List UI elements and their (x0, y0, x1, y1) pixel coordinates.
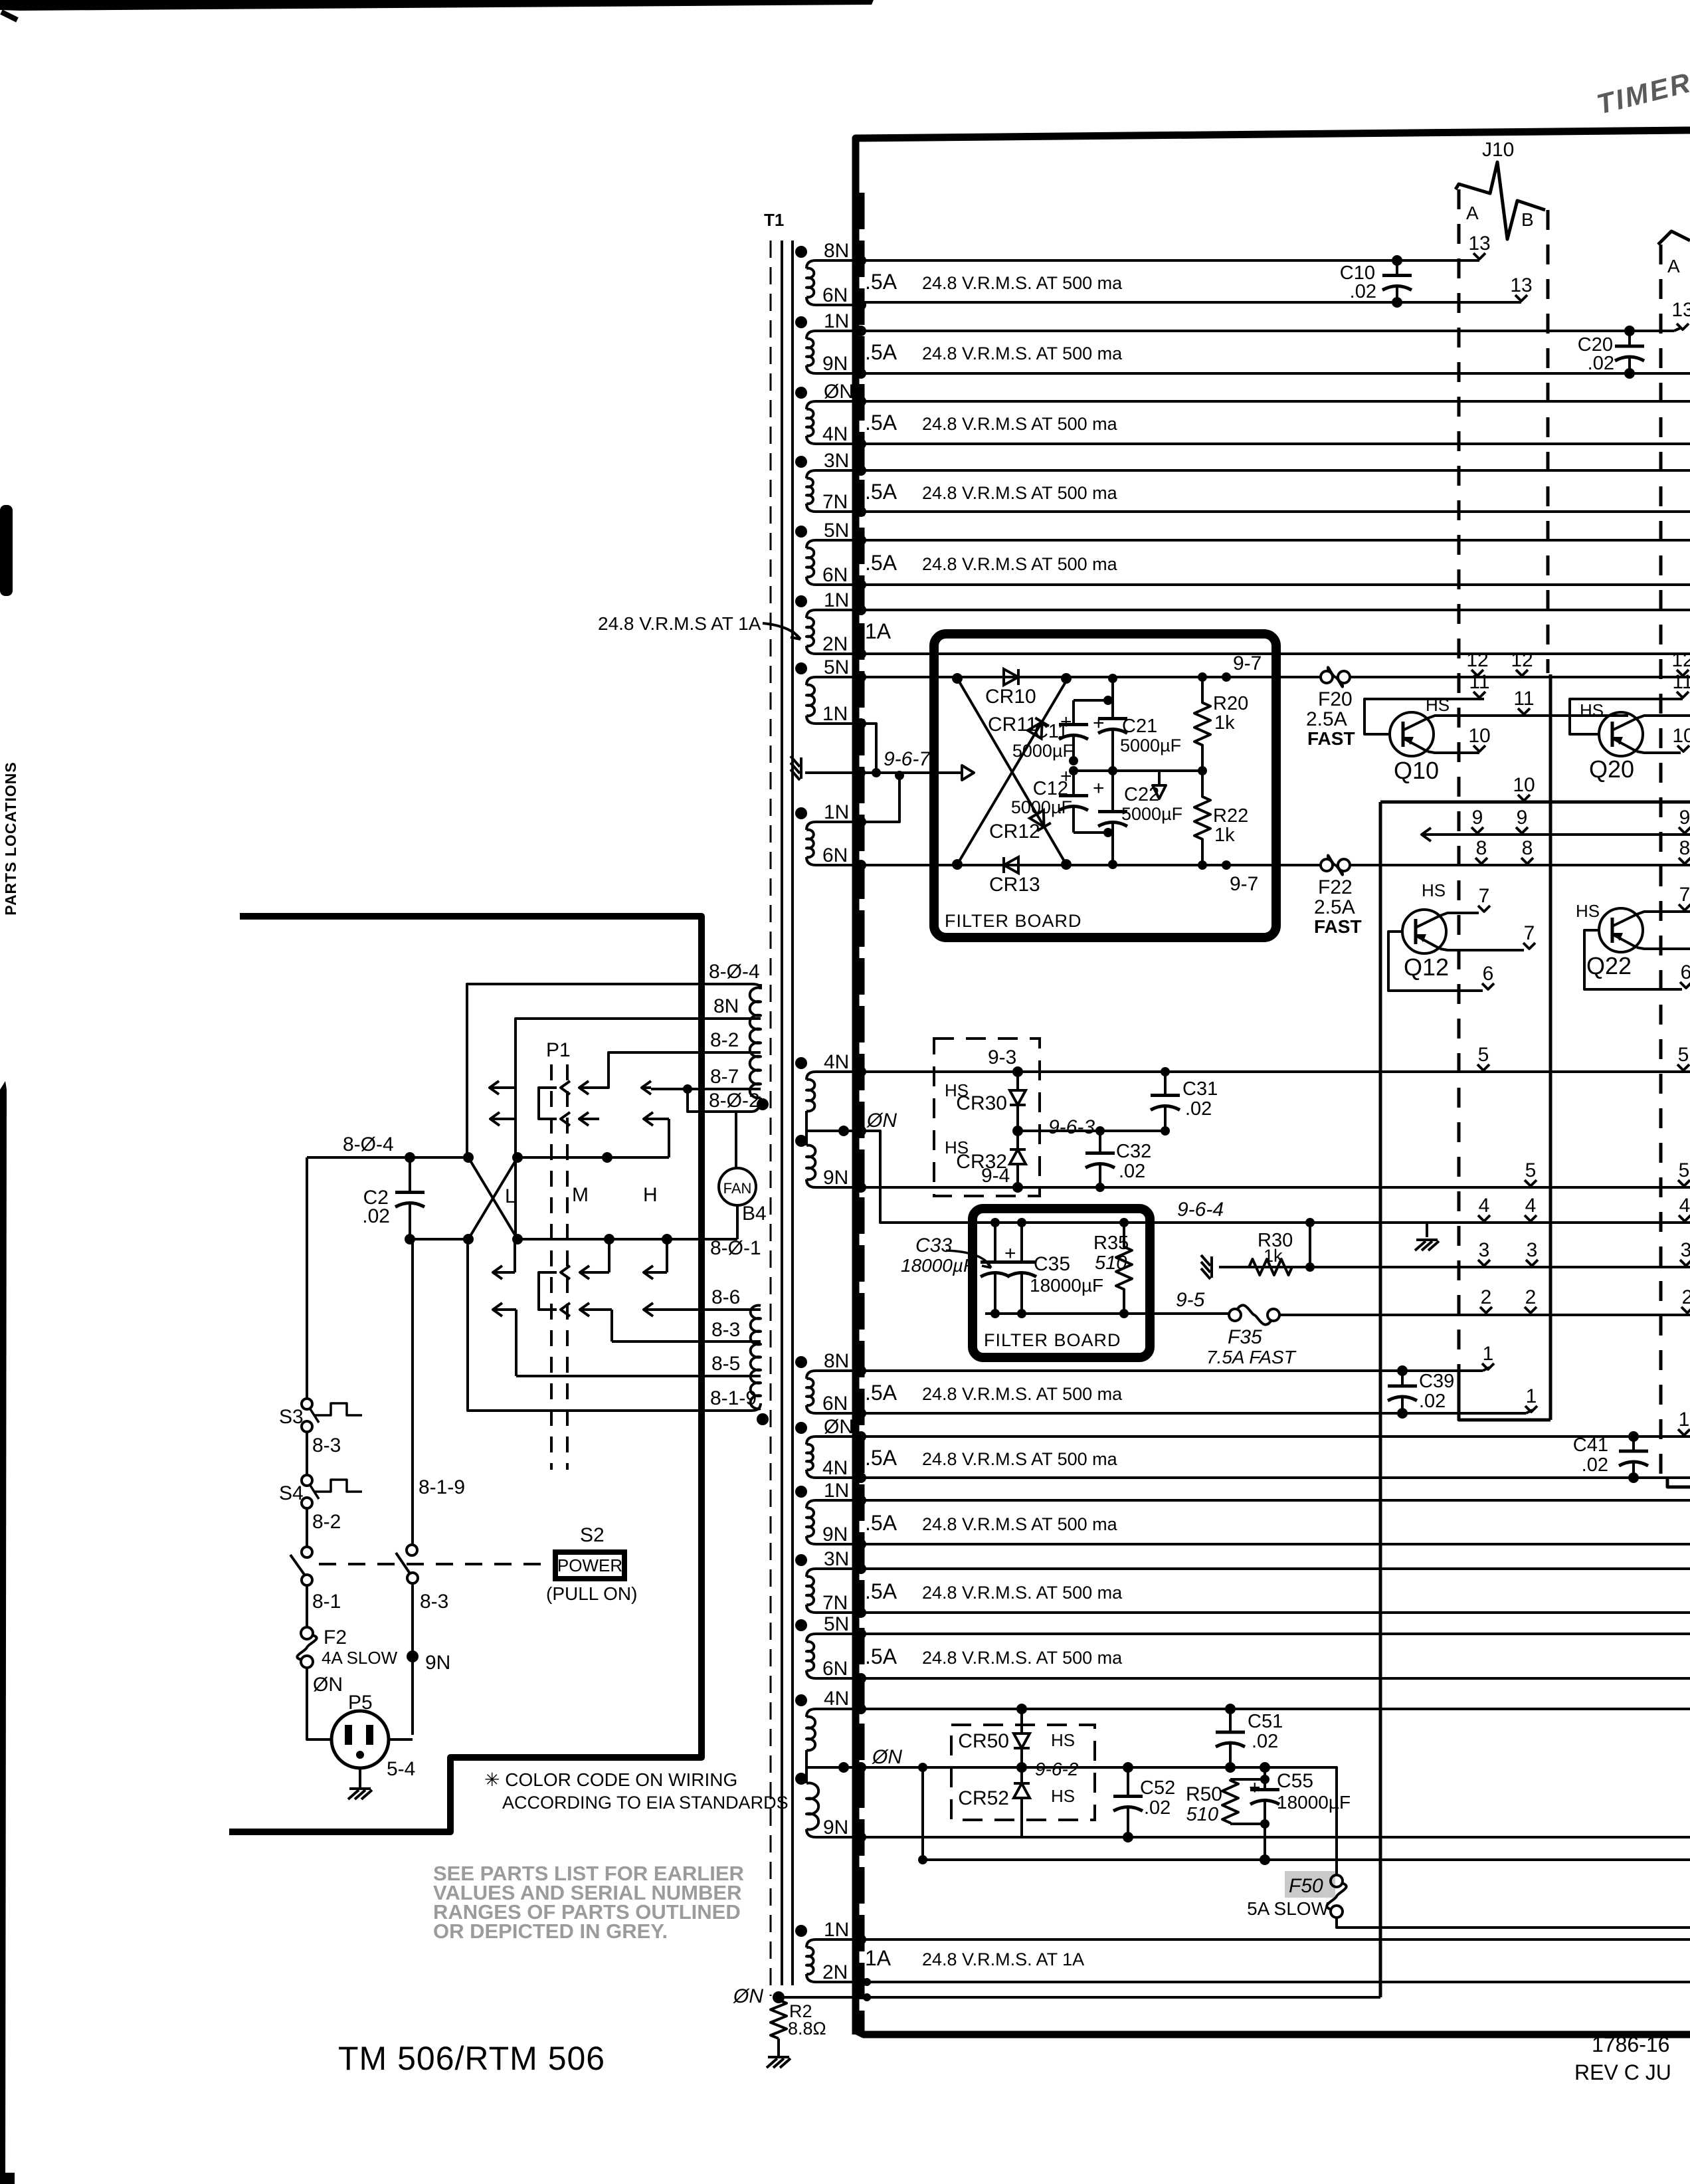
svg-text:FAST: FAST (1314, 916, 1362, 937)
svg-text:510: 510 (1186, 1804, 1218, 1825)
pin 4 arrow (1478, 1195, 1490, 1221)
svg-text:Q20: Q20 (1589, 755, 1634, 783)
svg-text:9: 9 (1472, 807, 1483, 829)
svg-text:5: 5 (1525, 1159, 1537, 1181)
svg-text:.02: .02 (1252, 1731, 1278, 1752)
svg-text:.02: .02 (1350, 281, 1376, 302)
pin 4 arrow right edge (1679, 1195, 1690, 1221)
svg-text:+: + (1060, 711, 1072, 733)
capacitor C31 .02 (1164, 1072, 1167, 1096)
right connector pin 13 (1671, 299, 1690, 330)
svg-text:C52: C52 (1140, 1777, 1175, 1799)
svg-text:CR50: CR50 (958, 1730, 1009, 1752)
transformer winding 1N/9N (806, 331, 861, 339)
svg-text:8-Ø-4: 8-Ø-4 (343, 1134, 394, 1155)
capacitor C32 .02 (1099, 1131, 1101, 1153)
svg-text:7N: 7N (822, 1592, 848, 1614)
svg-text:2: 2 (1481, 1286, 1492, 1308)
pin 8 arrow (1521, 837, 1533, 864)
svg-text:3: 3 (1681, 1239, 1690, 1261)
svg-text:18000µF: 18000µF (1277, 1792, 1351, 1813)
svg-text:+: + (1004, 1242, 1016, 1264)
svg-text:18000µF: 18000µF (901, 1255, 976, 1276)
filter board 1 outline (934, 634, 1276, 938)
label 9-7 bottom (1222, 860, 1231, 870)
svg-text:.5A: .5A (865, 340, 897, 364)
svg-text:9-5: 9-5 (1176, 1289, 1205, 1311)
wire row 6N (861, 301, 1521, 304)
svg-text:.02: .02 (362, 1205, 390, 1227)
svg-text:5000µF: 5000µF (1120, 736, 1181, 755)
svg-text:24.8 V.R.M.S AT 500 ma: 24.8 V.R.M.S AT 500 ma (922, 1449, 1118, 1469)
svg-text:.02: .02 (1144, 1797, 1171, 1819)
svg-text:5: 5 (1678, 1044, 1689, 1066)
svg-text:.5A: .5A (865, 1381, 897, 1405)
svg-text:4N: 4N (824, 1051, 849, 1073)
svg-text:.02: .02 (1582, 1454, 1608, 1476)
svg-text:2: 2 (1682, 1286, 1690, 1308)
svg-text:1k: 1k (1214, 825, 1235, 846)
transformer winding 1N/2N (806, 610, 861, 618)
capacitor C33 18000uF with pointer (994, 1223, 996, 1262)
svg-text:8-3: 8-3 (420, 1591, 448, 1613)
svg-text:FILTER BOARD: FILTER BOARD (984, 1330, 1121, 1350)
svg-text:5N: 5N (824, 520, 849, 542)
fuse F35 7.5A FAST (1229, 1309, 1241, 1321)
svg-text:8-2: 8-2 (312, 1511, 341, 1533)
connector P1 lower pin pair (561, 1266, 570, 1316)
svg-text:4: 4 (1679, 1195, 1690, 1217)
svg-text:PARTS LOCATIONS: PARTS LOCATIONS (2, 761, 19, 915)
svg-text:13: 13 (1468, 233, 1490, 254)
svg-text:9-4: 9-4 (981, 1165, 1010, 1187)
primary winding upper (taps 8-0-4,8N,8-2,8-7) (750, 988, 761, 1098)
transformer T1 core solid lines (781, 241, 783, 1985)
wire row aux 0N bottom (921, 1767, 924, 1860)
svg-text:R20: R20 (1213, 693, 1248, 714)
transformer winding ØN/4N (806, 1437, 861, 1444)
pin 9 arrow (1471, 807, 1483, 833)
svg-text:9N: 9N (823, 1167, 848, 1189)
svg-text:C39: C39 (1419, 1371, 1454, 1392)
wire row 6N lower2 (861, 1677, 1690, 1680)
pin 8 arrow right edge (1679, 837, 1690, 864)
wire 8-1-9 to S2 right pole (411, 1239, 414, 1545)
svg-text:R35: R35 (1093, 1233, 1129, 1254)
svg-text:C32: C32 (1116, 1141, 1151, 1162)
svg-text:8N: 8N (824, 1350, 849, 1372)
transformer T1 core dashed line (770, 241, 772, 1996)
svg-text:HS: HS (945, 1080, 969, 1100)
wire 8-0-4 (467, 984, 761, 1157)
wire 8-7 (651, 1088, 761, 1090)
svg-text:9: 9 (1679, 807, 1690, 829)
pin 10 arrow (1468, 725, 1490, 751)
mid rail connector arrow (1153, 771, 1166, 799)
wire row 0N chassis (779, 1996, 1380, 1999)
capacitor C22 (1111, 771, 1114, 812)
svg-text:ØN: ØN (866, 1110, 897, 1132)
P5 ground (359, 1768, 361, 1789)
svg-text:HS: HS (945, 1138, 969, 1157)
switch S2 left pole (302, 1547, 312, 1557)
svg-text:9-6-4: 9-6-4 (1177, 1199, 1224, 1221)
diode CR32 (1016, 1131, 1019, 1149)
svg-text:4A SLOW: 4A SLOW (322, 1648, 398, 1668)
wire row 4N (861, 443, 1690, 445)
pin 3 arrow (1478, 1239, 1490, 1266)
svg-text:7: 7 (1679, 884, 1690, 906)
svg-text:10: 10 (1468, 725, 1490, 747)
svg-text:5000µF: 5000µF (1011, 797, 1072, 817)
svg-text:Q22: Q22 (1586, 952, 1632, 979)
pin 3 arrow right edge (1680, 1239, 1690, 1266)
capacitor C12 (1072, 771, 1075, 796)
svg-text:1k: 1k (1214, 712, 1235, 734)
wire row 9N lower (861, 1543, 1690, 1545)
svg-text:1N: 1N (824, 1480, 849, 1502)
pin 7 arrow right edge (1679, 884, 1690, 910)
svg-text:6N: 6N (822, 564, 848, 586)
svg-text:+: + (1093, 712, 1105, 734)
capacitor C10 .02 (1396, 260, 1398, 276)
svg-text:8-2: 8-2 (710, 1029, 739, 1051)
svg-text:R50: R50 (1186, 1783, 1222, 1805)
resistor R22 1k (1194, 771, 1210, 865)
svg-text:5000µF: 5000µF (1012, 741, 1074, 761)
svg-text:.5A: .5A (865, 1446, 897, 1470)
svg-text:24.8 V.R.M.S AT 1A: 24.8 V.R.M.S AT 1A (598, 613, 761, 634)
resistor R35 510 (1116, 1223, 1132, 1314)
svg-text:24.8 V.R.M.S. AT 500 ma: 24.8 V.R.M.S. AT 500 ma (922, 1583, 1123, 1603)
fuse F50 5A SLOW with grey highlight (1285, 1871, 1335, 1898)
wire 0N to filter board 2 (pin 4 rail 9-6-4) (861, 1131, 1690, 1223)
transformer winding 8N/6N (806, 1371, 861, 1379)
svg-text:.5A: .5A (865, 1511, 897, 1535)
wire row 4N lower (861, 1476, 1690, 1479)
svg-text:REV C JU: REV C JU (1574, 2060, 1671, 2084)
svg-text:ØN: ØN (824, 1416, 854, 1438)
svg-text:7.5A FAST: 7.5A FAST (1206, 1347, 1297, 1367)
wire 8N (516, 1019, 761, 1239)
svg-text:+: + (1249, 1777, 1261, 1799)
svg-text:HS: HS (1051, 1730, 1075, 1750)
pin 11 arrow (1513, 688, 1534, 714)
svg-text:8: 8 (1476, 837, 1487, 859)
svg-text:8: 8 (1679, 837, 1690, 859)
scan artifact top black band (0, 0, 874, 11)
pin 5 arrow (1477, 1044, 1489, 1070)
svg-text:8-6: 8-6 (711, 1286, 740, 1308)
lower select bus 8-0-1 (410, 1238, 468, 1241)
svg-text:C31: C31 (1182, 1078, 1218, 1100)
transistor Q20 (1570, 699, 1683, 734)
svg-text:5N: 5N (824, 656, 849, 678)
pin 10 arrow right edge (1672, 725, 1690, 751)
fuse F22 2.5A FAST (1321, 859, 1333, 871)
connector P1 upper pin pair (561, 1081, 570, 1126)
svg-text:P1: P1 (546, 1039, 571, 1061)
svg-text:3N: 3N (824, 450, 849, 472)
dashed box CR30/CR32 (934, 1039, 1040, 1196)
pin 11 arrow (1469, 671, 1489, 698)
svg-text:8-Ø-4: 8-Ø-4 (709, 961, 760, 983)
resistor R30 1k with ground (1309, 1223, 1311, 1267)
svg-text:9-6-3: 9-6-3 (1048, 1116, 1095, 1138)
svg-text:8-Ø-1: 8-Ø-1 (710, 1237, 761, 1259)
svg-text:ØN: ØN (313, 1674, 343, 1696)
svg-text:(PULL ON): (PULL ON) (546, 1583, 637, 1604)
wire row 6N lower (861, 1412, 1526, 1415)
vertical bus line x2078 (1379, 802, 1382, 1997)
svg-text:8: 8 (1522, 837, 1533, 859)
svg-text:T1: T1 (764, 210, 784, 230)
wire row 8N top (861, 259, 1479, 262)
filter board 2 bottom rail / 9-5 wire (985, 1312, 1229, 1315)
capacitor C35 18000uF (1020, 1223, 1023, 1262)
wire row 1N 1A (861, 609, 1690, 611)
capacitor C55 18000uF (1260, 1762, 1270, 1773)
svg-text:12: 12 (1671, 649, 1690, 671)
transistor Q12 (1388, 932, 1483, 991)
pin 1 arrow (1525, 1385, 1537, 1412)
capacitor C41 .02 (1632, 1437, 1635, 1451)
capacitor C11 (1074, 699, 1108, 702)
svg-text:ØN: ØN (824, 381, 854, 403)
svg-text:1N: 1N (824, 801, 849, 823)
svg-text:C41: C41 (1573, 1435, 1608, 1456)
svg-text:B4: B4 (742, 1203, 767, 1225)
svg-text:FILTER BOARD: FILTER BOARD (945, 911, 1082, 931)
svg-text:ACCORDING TO EIA STANDARDS: ACCORDING TO EIA STANDARDS (502, 1793, 789, 1813)
svg-text:6N: 6N (822, 1393, 848, 1415)
svg-text:18000µF: 18000µF (1030, 1275, 1103, 1296)
wire row 1N (861, 330, 1674, 332)
svg-text:F2: F2 (324, 1627, 347, 1648)
pin 7 arrow (1478, 885, 1490, 912)
svg-text:S3: S3 (279, 1406, 304, 1428)
wire 8-0-2 and jog to fan (688, 1089, 761, 1112)
bridge mid rail (1074, 769, 1202, 772)
svg-text:2.5A: 2.5A (1306, 708, 1347, 730)
pin 3 arrow (1526, 1239, 1538, 1266)
svg-text:8.8Ω: 8.8Ω (788, 2019, 826, 2038)
svg-text:CR12: CR12 (989, 821, 1040, 843)
svg-text:CR10: CR10 (985, 686, 1036, 708)
transistor Q22 (1584, 930, 1682, 989)
svg-text:13: 13 (1510, 274, 1532, 296)
wire row 6N-2 (861, 583, 1690, 586)
svg-text:HS: HS (1580, 700, 1604, 720)
transformer winding 5N/6N (806, 1634, 861, 1642)
svg-text:1: 1 (1679, 1409, 1690, 1431)
main border left dashed bus (858, 193, 865, 2032)
svg-text:Q12: Q12 (1404, 953, 1449, 981)
svg-text:1N: 1N (824, 589, 849, 611)
wire row 3N (861, 469, 1690, 472)
svg-text:9-7: 9-7 (1233, 652, 1262, 674)
svg-text:1N: 1N (824, 1919, 849, 1941)
switch S4 (302, 1475, 312, 1486)
svg-text:24.8 V.R.M.S. AT 1A: 24.8 V.R.M.S. AT 1A (922, 1949, 1084, 1969)
transformer winding 4N/0N/9N (middle) (806, 1072, 861, 1080)
connector J10 left column dashed (1457, 189, 1461, 1371)
pin 11 arrow right edge (1672, 671, 1690, 698)
transformer winding 5N/6N (806, 540, 861, 548)
svg-text:9N: 9N (425, 1652, 450, 1674)
svg-text:R22: R22 (1213, 805, 1248, 827)
transformer winding 1N/9N (806, 1500, 861, 1508)
svg-text:24.8 V.R.M.S AT 500 ma: 24.8 V.R.M.S AT 500 ma (922, 483, 1118, 503)
svg-text:8-3: 8-3 (711, 1319, 740, 1341)
wire row 2N 1A bottom (861, 1981, 1690, 1983)
transformer winding ØN/4N (806, 401, 861, 409)
svg-text:9-6-2: 9-6-2 (1035, 1759, 1079, 1779)
connector J10 right column dashed (1547, 210, 1550, 673)
P1 row arrows lower (514, 1239, 516, 1272)
svg-text:9-7: 9-7 (1230, 873, 1258, 895)
wire row 0N lower (to C41) (861, 1435, 1690, 1438)
wire 8-2 (589, 1052, 761, 1088)
svg-text:F50: F50 (1289, 1875, 1323, 1897)
svg-text:10: 10 (1672, 725, 1690, 747)
main border bottom edge (856, 2031, 1690, 2035)
svg-text:ØN: ØN (733, 1985, 763, 2007)
svg-text:ØN: ØN (872, 1746, 902, 1768)
svg-text:C55: C55 (1277, 1770, 1313, 1792)
svg-text:6: 6 (1681, 961, 1690, 983)
svg-text:A: A (1466, 203, 1479, 223)
svg-text:.5A: .5A (865, 270, 897, 294)
svg-text:S4: S4 (279, 1482, 304, 1504)
switch S2 right pole (407, 1545, 417, 1555)
svg-text:5: 5 (1478, 1044, 1489, 1066)
svg-text:12: 12 (1511, 649, 1533, 671)
svg-text:3N: 3N (824, 1548, 849, 1570)
diode CR13 (1004, 857, 1018, 873)
svg-text:.5A: .5A (865, 480, 897, 504)
resistor R20 1k (1194, 677, 1210, 771)
pin 12 arrow right edge (1671, 649, 1690, 676)
filter board 2 outline (973, 1209, 1150, 1357)
wire 1N to 9-6-7 node (861, 724, 876, 773)
pin 5 arrow (1525, 1159, 1537, 1186)
diode CR50 (1020, 1709, 1023, 1734)
svg-text:2N: 2N (822, 1961, 848, 1983)
diode CR10 (1004, 669, 1018, 685)
wire 0N mid rail to C55/F50 (806, 1767, 1337, 1875)
svg-text:8-1-9: 8-1-9 (419, 1476, 465, 1498)
pin 12 arrow (1511, 649, 1533, 676)
wire 8-5 (516, 1375, 761, 1377)
svg-text:.5A: .5A (865, 551, 897, 575)
svg-text:12: 12 (1466, 649, 1488, 671)
transistor Q10 (1364, 699, 1484, 734)
svg-text:6: 6 (1483, 963, 1494, 985)
pin 1 arrow (1482, 1343, 1494, 1369)
svg-text:24.8 V.R.M.S. AT 500 ma: 24.8 V.R.M.S. AT 500 ma (922, 1648, 1123, 1668)
svg-text:6N: 6N (822, 844, 848, 866)
capacitor C21 (1111, 678, 1114, 719)
scan artifact left edge strip (0, 1081, 7, 2184)
svg-text:9: 9 (1517, 807, 1528, 829)
P1 row arrows upper (490, 1081, 516, 1094)
svg-text:HS: HS (1051, 1786, 1075, 1806)
svg-text:B: B (1521, 209, 1534, 230)
pin 5 arrow right edge (1678, 1159, 1690, 1186)
svg-text:HS: HS (1426, 695, 1450, 715)
wire row 4N bottom (C51/CR50 rail) (861, 1708, 1690, 1710)
wire row 7N lower (861, 1611, 1690, 1614)
transformer winding 1N/6N (806, 822, 861, 830)
primary winding lower (taps 8-6,8-3,8-5,8-1-9) (751, 1306, 761, 1409)
fan motor B4 (719, 1168, 756, 1205)
transformer winding 3N/7N (806, 1569, 861, 1577)
svg-text:5A SLOW: 5A SLOW (1247, 1898, 1329, 1919)
wire row 0N (861, 400, 1690, 403)
R2 ground (777, 2038, 780, 2057)
svg-text:13: 13 (1671, 299, 1690, 321)
svg-text:A: A (1667, 256, 1680, 276)
wire row 1N lower (861, 1499, 1690, 1502)
capacitor C39 .02 (1401, 1371, 1404, 1386)
pin 7 arrow (1523, 922, 1535, 949)
svg-text:9-3: 9-3 (988, 1046, 1016, 1068)
wire 5N into bridge / F20 rail (861, 676, 1321, 678)
connector J10 outline (1455, 162, 1545, 239)
wire row 10 bus (1380, 801, 1690, 804)
svg-text:CR52: CR52 (958, 1787, 1009, 1809)
dashed box CR50/CR52 (951, 1725, 1095, 1820)
wire row 1N 1A bottom (861, 1938, 1690, 1941)
bridge diagonal with diode CR11 (957, 681, 1066, 864)
svg-text:C33: C33 (915, 1235, 952, 1256)
svg-text:8-3: 8-3 (312, 1435, 341, 1456)
left module border (229, 916, 702, 1832)
svg-text:H: H (643, 1184, 658, 1206)
wire row 2N 1A (861, 652, 1690, 655)
svg-text:8-1: 8-1 (312, 1591, 341, 1613)
svg-text:4N: 4N (822, 1457, 848, 1479)
svg-text:4: 4 (1525, 1195, 1537, 1217)
svg-text:6N: 6N (822, 284, 848, 306)
crossover wires (468, 1157, 517, 1239)
svg-text:8-5: 8-5 (711, 1353, 740, 1375)
svg-text:7: 7 (1524, 922, 1535, 944)
svg-text:8-Ø-2: 8-Ø-2 (709, 1090, 760, 1112)
fuse F20 2.5A FAST (1321, 671, 1333, 683)
svg-text:9N: 9N (822, 1524, 848, 1545)
svg-text:24.8 V.R.M.S AT 500 ma: 24.8 V.R.M.S AT 500 ma (922, 1514, 1118, 1534)
svg-text:C35: C35 (1034, 1253, 1070, 1275)
transformer winding 4N/0N/9N (lower) (806, 1709, 861, 1717)
svg-text:POWER: POWER (557, 1555, 622, 1575)
svg-text:4: 4 (1479, 1195, 1490, 1217)
wire row 9N mid (9-4 rail) (861, 1186, 1690, 1189)
svg-text:.02: .02 (1419, 1391, 1446, 1412)
resistor R2 8.8 ohm (771, 2000, 787, 2038)
wire 8-3 (612, 1340, 761, 1343)
svg-text:TM 506/RTM 506: TM 506/RTM 506 (338, 2040, 605, 2077)
pin 2 arrow (1480, 1286, 1492, 1313)
svg-text:J10: J10 (1482, 139, 1514, 161)
label 9-7 top (1222, 672, 1231, 682)
wire row 7N (861, 510, 1690, 513)
svg-text:1A: 1A (865, 619, 892, 643)
right connector outline (1658, 231, 1690, 245)
svg-text:L: L (505, 1185, 516, 1207)
pin 6 arrow right edge (1680, 961, 1690, 988)
